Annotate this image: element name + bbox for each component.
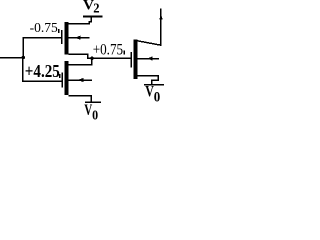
svg-text:0: 0 [154,89,161,105]
wire input left [0,57,23,59]
current arrow top right [159,14,163,20]
terminal bar V0 right [144,84,164,86]
label comma after -0.75 [58,29,60,33]
node A junction dot [21,56,25,60]
wire Q1 drain to V2 [68,17,91,23]
wire node B to Q3 gate [92,57,131,59]
transistor Q3 body arrow [147,56,152,60]
label comma after +4.25 [59,74,61,78]
wire up branch to Q1 gate [23,38,61,58]
svg-text:0: 0 [92,108,98,120]
terminal bar V0 bottom [85,102,101,104]
transistor Q1 channel bar [65,22,69,55]
transistor Q1 gate bar [61,30,63,44]
wire node B down to Q2 drain [69,58,92,64]
wire Q3 drain to top-right riser [137,9,161,46]
transistor Q2 body lead [69,79,92,81]
transistor Q2 body arrow [78,78,84,82]
wire Q1 source to node B [68,54,91,58]
wire down branch to Q2 gate [23,58,61,82]
wire Q2 source to V0 bottom terminal [69,96,91,102]
svg-text:V: V [145,84,154,101]
svg-text:+4.25: +4.25 [25,61,60,81]
transistor Q1 body arrow [75,36,81,40]
svg-text:2: 2 [93,2,99,17]
svg-text:+0.75: +0.75 [93,41,123,59]
transistor Q3 gate bar [130,52,132,67]
transistor Q2 channel bar [65,61,69,95]
transistor Q1 body lead [69,37,90,39]
wire Q3 source zigzag to V0 right terminal [137,76,158,84]
transistor Q2 gate bar [61,73,63,88]
label comma after +0.75 [123,51,125,55]
transistor Q3 body lead [137,58,159,60]
node B junction dot [90,56,94,60]
svg-text:-0.75: -0.75 [30,20,58,35]
terminal bar V2 [83,16,103,18]
transistor Q3 channel bar [134,40,138,79]
